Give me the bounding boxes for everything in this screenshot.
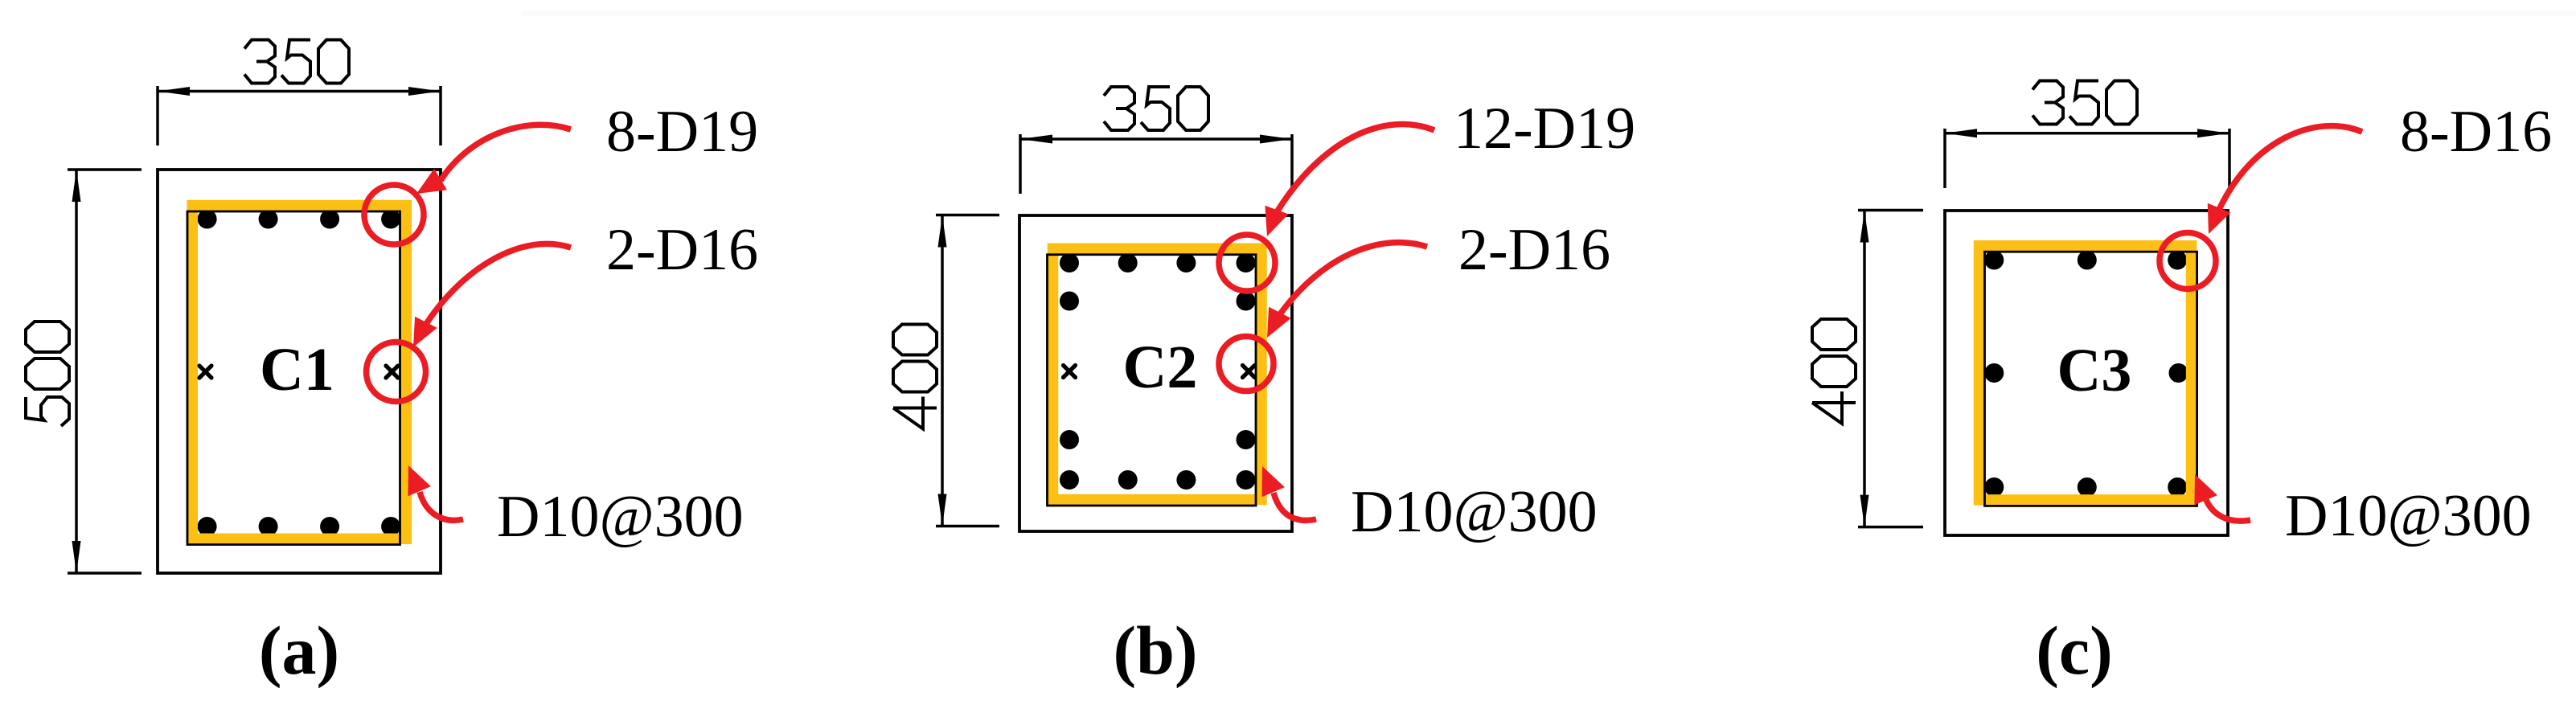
- top dim left arrowhead: [1020, 135, 1052, 144]
- dimension text 400 (rotated): [893, 325, 937, 429]
- top dim right extension line: [2228, 129, 2231, 188]
- top dimension line 350: [1020, 137, 1292, 141]
- svg-text:C3: C3: [2057, 337, 2132, 404]
- concrete section outline C3: [1945, 211, 2228, 535]
- leader arrowhead 12-D19: [1255, 206, 1288, 240]
- svg-text:8-D19: 8-D19: [606, 99, 758, 165]
- red circle on middle bar: [367, 342, 426, 402]
- middle bar x-mark left: [199, 366, 211, 378]
- red circle on corner bar: [364, 185, 424, 244]
- svg-text:12-D19: 12-D19: [1454, 96, 1635, 162]
- leader arrowhead D10@300: [2184, 469, 2217, 505]
- top dimension line 350: [1945, 132, 2229, 135]
- leader curve D10@300: [420, 492, 463, 520]
- longitudinal bars bottom row: [198, 517, 401, 536]
- top dim right extension line: [1290, 134, 1294, 194]
- leader curve 12-D19: [1277, 125, 1434, 212]
- left dim bottom extension line: [68, 572, 142, 575]
- left dim top extension line: [936, 214, 999, 217]
- left dimension line 400: [941, 215, 944, 526]
- dimension text 400 (rotated): [1812, 319, 1856, 424]
- svg-text:(c): (c): [2036, 612, 2112, 689]
- leader arrowhead 8-D19: [410, 169, 447, 205]
- left dimension line 400: [1863, 211, 1866, 527]
- leader arrowhead D10@300: [397, 461, 431, 496]
- leader arrowhead 8-D16: [2197, 203, 2231, 239]
- stirrup highlight (yellow): [1053, 248, 1262, 499]
- left dimension line 500: [75, 170, 78, 573]
- leader arrowhead 2-D16: [402, 317, 437, 353]
- top dimension line 350: [158, 90, 441, 93]
- middle bar x-mark right: [386, 366, 398, 378]
- dimension text 350: [244, 40, 349, 84]
- longitudinal bars bottom row: [1060, 470, 1256, 490]
- top dim left arrowhead: [1945, 129, 1977, 137]
- concrete section outline C1: [158, 170, 441, 573]
- left dim top extension line: [1858, 209, 1923, 212]
- left dim bottom extension line: [936, 525, 999, 528]
- leader curve 2-D16: [1280, 243, 1427, 314]
- leader curve 2-D16: [426, 244, 571, 324]
- svg-text:D10@300: D10@300: [1351, 479, 1598, 545]
- top dim left extension line: [156, 86, 159, 145]
- longitudinal bars fourth row: [1060, 430, 1256, 449]
- leader curve 8-D19: [440, 125, 571, 180]
- dimension text 500 (rotated): [26, 322, 69, 426]
- leader curve D10@300: [1274, 493, 1316, 520]
- left dim bottom arrowhead: [1860, 495, 1869, 527]
- stirrup line (thin black): [1048, 255, 1257, 506]
- longitudinal bars bottom row: [1984, 477, 2187, 497]
- top dim left arrowhead: [158, 87, 190, 96]
- middle bar x-mark left: [1064, 366, 1076, 378]
- top dim right extension line: [439, 86, 442, 145]
- concrete section outline C2: [1019, 215, 1292, 531]
- longitudinal bars top row: [1984, 251, 2187, 270]
- stirrup highlight (yellow): [1979, 246, 2192, 500]
- faint scan artifact line at top: [521, 11, 2576, 16]
- longitudinal bars second row: [1060, 292, 1256, 311]
- leader arrowhead 2-D16: [1256, 307, 1291, 343]
- svg-text:C1: C1: [260, 336, 334, 404]
- left dim top arrowhead: [938, 215, 947, 248]
- top dim right arrowhead: [2197, 129, 2229, 137]
- leader curve 8-D16: [2219, 126, 2362, 210]
- svg-text:C2: C2: [1123, 334, 1198, 401]
- red circle on corner bar: [1219, 235, 1275, 291]
- longitudinal bars middle row: [1984, 363, 2188, 383]
- left dim top extension line: [68, 168, 142, 171]
- left dim top arrowhead: [1860, 211, 1869, 243]
- left dim top arrowhead: [72, 170, 81, 202]
- top dim left extension line: [1943, 129, 1946, 188]
- dimension text 350: [2032, 81, 2137, 125]
- left dim bottom extension line: [1858, 526, 1923, 529]
- dimension text 350: [1104, 87, 1208, 130]
- red circle on middle bar: [1219, 337, 1274, 391]
- leader curve D10@300: [2206, 500, 2250, 521]
- red circle on corner bar: [2160, 233, 2216, 289]
- stirrup line (thin black): [1985, 252, 2197, 506]
- longitudinal bars top row: [1060, 253, 1256, 272]
- svg-text:D10@300: D10@300: [497, 484, 744, 550]
- stirrup highlight (yellow): [192, 206, 406, 539]
- middle bar x-mark right: [1243, 366, 1255, 378]
- top dim left extension line: [1019, 134, 1022, 194]
- svg-text:8-D16: 8-D16: [2400, 99, 2552, 165]
- top dim right arrowhead: [1260, 135, 1292, 144]
- svg-text:D10@300: D10@300: [2285, 483, 2532, 549]
- svg-text:(a): (a): [259, 612, 339, 689]
- longitudinal bars top row: [198, 210, 401, 229]
- top dim right arrowhead: [408, 87, 441, 96]
- left dim bottom arrowhead: [72, 541, 81, 573]
- left dim bottom arrowhead: [938, 494, 947, 526]
- svg-text:(b): (b): [1113, 612, 1197, 689]
- svg-text:2-D16: 2-D16: [1458, 217, 1610, 283]
- stirrup line (thin black): [187, 211, 400, 545]
- leader arrowhead D10@300: [1251, 461, 1285, 497]
- svg-text:2-D16: 2-D16: [606, 217, 758, 283]
